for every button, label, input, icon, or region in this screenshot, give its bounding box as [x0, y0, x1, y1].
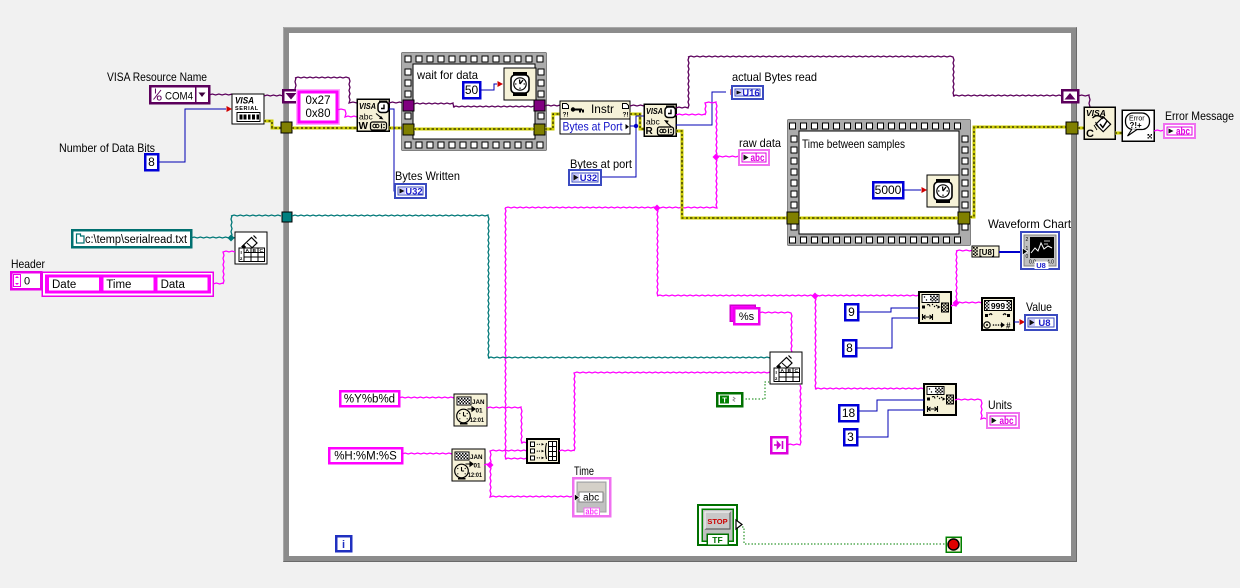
error wire VISA serial to loop tunnel	[264, 121, 281, 128]
VISA resource name constant COM4	[150, 86, 209, 103]
error tunnel on loop right border	[1066, 122, 1078, 134]
Format Date/Time String node 1	[454, 394, 487, 426]
indicator Bytes Written U32	[395, 184, 426, 198]
wire to time format node	[402, 453, 452, 454]
svg-text:VISA: VISA	[646, 106, 663, 116]
label Waveform Chart	[988, 217, 1072, 231]
Write To Spreadsheet File node (data)	[770, 352, 802, 384]
svg-text:?!: ?!	[623, 112, 629, 119]
numeric constant 50	[463, 82, 480, 98]
svg-text:Units: Units	[988, 398, 1012, 412]
numeric constant 18	[839, 405, 858, 421]
string wire read buffer	[505, 102, 739, 459]
indicator raw data	[739, 150, 769, 165]
format string constant %s	[730, 305, 759, 324]
wire 18 to subset 2	[858, 400, 924, 411]
svg-text:A: A	[246, 248, 250, 254]
svg-text:0x80: 0x80	[306, 108, 331, 120]
string wire header array to write node	[213, 251, 235, 284]
error wire through sequence 2	[799, 217, 958, 220]
property node Instr / Bytes at Port	[560, 101, 630, 134]
wire date string to build array	[487, 407, 527, 443]
svg-text:Bytes Written: Bytes Written	[395, 169, 460, 183]
string constant %H:%M:%S	[329, 448, 402, 463]
wire VISA resource shift register over to VISA Write	[295, 77, 357, 103]
wire write node to set position icon	[787, 385, 801, 445]
label Bytes Written	[395, 169, 460, 183]
svg-text:U16: U16	[742, 88, 759, 99]
label actual Bytes read	[732, 70, 817, 84]
svg-text:8: 8	[148, 155, 155, 169]
label Header	[11, 257, 45, 271]
while loop structure	[283, 27, 1077, 562]
sequence 1 error tunnels	[403, 124, 545, 135]
svg-text:Time: Time	[574, 464, 594, 478]
svg-text:A: A	[781, 368, 785, 374]
svg-text:8: 8	[846, 341, 853, 355]
svg-text:wait for data: wait for data	[416, 68, 478, 82]
wire to date format node	[399, 397, 454, 398]
svg-text:Error Message: Error Message	[1165, 109, 1234, 123]
svg-text:U32: U32	[580, 173, 597, 184]
svg-text:abc: abc	[646, 117, 660, 127]
wire 8 to subset length	[856, 318, 919, 348]
svg-text:T: T	[722, 396, 727, 405]
indicator Units	[987, 413, 1019, 428]
svg-text:STOP: STOP	[707, 517, 727, 526]
boolean constant T	[717, 393, 742, 406]
numeric constant 8 (data bits)	[145, 154, 158, 170]
Wait (ms) node in sequence 1	[504, 68, 536, 100]
svg-text:[U8]: [U8]	[979, 248, 995, 257]
flat sequence frame - wait for data	[402, 53, 546, 150]
wire VISA Write to sequence tunnel (VISA)	[389, 102, 403, 103]
svg-text:?!: ?!	[563, 112, 569, 119]
svg-text:O: O	[157, 96, 163, 103]
string wire to string subset nodes	[657, 293, 924, 390]
Waveform Chart terminal	[1021, 232, 1059, 270]
svg-text:01: 01	[476, 408, 484, 415]
svg-text:3: 3	[847, 430, 854, 444]
VISA wire to VISA Close	[1078, 95, 1090, 107]
error wire sequence 1 to property node	[545, 114, 560, 129]
svg-text:B: B	[788, 368, 792, 374]
flat sequence frame - Time between samples	[788, 120, 970, 245]
svg-text:COM4: COM4	[165, 91, 193, 103]
error wire loop to VISA Close	[1078, 127, 1084, 130]
svg-text:Data: Data	[161, 279, 186, 291]
file path constant c:\temp\serialread.txt	[72, 230, 191, 247]
Time string indicator	[573, 478, 610, 517]
VISA Write node	[357, 99, 389, 132]
wire 3 to subset 2	[857, 410, 924, 437]
numeric constant 8	[843, 340, 856, 356]
wire time string to build array and Time indicator	[484, 450, 573, 497]
VISA wire read to right shift register	[676, 56, 1062, 108]
string constant 0x27 0x80	[297, 90, 340, 125]
wire 5000 to wait ms 2	[903, 187, 927, 193]
label Value	[1026, 300, 1052, 314]
svg-text:abc: abc	[1176, 127, 1190, 138]
Wait (ms) node in sequence 2	[927, 175, 959, 207]
wire data bits 8 to VISA serial	[158, 106, 232, 162]
indicator Bytes at port U32	[569, 170, 601, 185]
svg-text:B: B	[253, 248, 257, 254]
VISA wire through sequence 1	[414, 103, 534, 107]
svg-text:c:\temp\serialread.txt: c:\temp\serialread.txt	[85, 234, 188, 246]
svg-text:Instr: Instr	[591, 102, 614, 116]
svg-text:C: C	[260, 248, 264, 254]
svg-text:0: 0	[24, 276, 30, 288]
svg-text:Waveform Chart: Waveform Chart	[988, 217, 1072, 231]
svg-text:VISA: VISA	[359, 101, 376, 111]
label Time between samples	[802, 137, 905, 151]
svg-text:%Y%b%d: %Y%b%d	[344, 394, 395, 406]
svg-text:SERIAL: SERIAL	[235, 106, 259, 112]
svg-text:Number of Data Bits: Number of Data Bits	[59, 141, 155, 155]
svg-text:%s: %s	[739, 311, 755, 323]
svg-text:U8: U8	[1038, 318, 1050, 329]
path wire inside loop	[292, 215, 770, 358]
String To Byte Array node	[972, 246, 999, 257]
String Subset node 2	[924, 384, 956, 415]
sequence 1 VISA tunnels	[403, 100, 545, 111]
loop iteration terminal i	[336, 536, 351, 551]
wire 9 to subset offset	[858, 308, 919, 312]
svg-text:Header: Header	[11, 257, 45, 271]
svg-text:JAN: JAN	[470, 454, 483, 461]
svg-text:actual Bytes read: actual Bytes read	[732, 70, 817, 84]
svg-text:12:01: 12:01	[468, 472, 482, 479]
svg-text:0x27: 0x27	[306, 95, 331, 107]
label Error Message	[1165, 109, 1234, 123]
VISA wire sequence 1 to property node	[545, 105, 560, 106]
VISA wire property node to VISA Read	[630, 105, 644, 106]
error wire VISA Write to sequence tunnel	[389, 127, 403, 130]
numeric constant 9	[845, 304, 858, 320]
svg-text:Time between samples: Time between samples	[802, 137, 905, 151]
svg-text:999: 999	[991, 301, 1005, 311]
path wire file constant to write header node and loop	[191, 215, 281, 242]
error wire close to error handler	[1115, 132, 1122, 135]
string wire to Error Message	[1154, 130, 1164, 131]
label VISA Resource Name	[107, 70, 207, 84]
error wire VISA Read to sequence 2	[676, 131, 787, 218]
label wait for data	[416, 68, 478, 82]
svg-text:raw data: raw data	[739, 136, 781, 150]
svg-text:U32: U32	[405, 187, 422, 198]
boolean wire T to write node	[742, 382, 769, 399]
svg-text:TF: TF	[712, 535, 722, 545]
numeric constant 5000	[873, 182, 903, 198]
string constant %Y%b%d	[340, 391, 399, 406]
svg-text:U8: U8	[1036, 261, 1046, 270]
numeric constant 3	[844, 429, 857, 445]
loop condition terminal	[946, 537, 961, 552]
indicator actual Bytes read U16	[732, 86, 763, 99]
svg-text:%H:%M:%S: %H:%M:%S	[334, 451, 397, 463]
label Bytes at port	[570, 157, 633, 171]
svg-text:Date: Date	[52, 279, 76, 291]
svg-text:Time: Time	[106, 279, 131, 291]
svg-text:VISA: VISA	[235, 96, 254, 106]
label Time	[574, 464, 594, 478]
VISA Close node	[1084, 107, 1115, 140]
sequence 2 error tunnels	[787, 212, 970, 224]
svg-text:abc: abc	[1000, 416, 1014, 427]
label Units	[988, 398, 1012, 412]
wire bytes written from VISA Write	[389, 109, 396, 191]
Format Date/Time String node 2	[452, 449, 485, 481]
left shift register	[283, 90, 299, 102]
svg-text:R: R	[646, 126, 654, 137]
wire %s to write node	[759, 312, 792, 352]
svg-text:5000: 5000	[875, 183, 902, 197]
wire string 0x27 to VISA Write	[337, 109, 357, 117]
indicator Error Message	[1164, 124, 1195, 138]
error wire sequence 2 to loop tunnel	[970, 127, 1066, 217]
svg-text:W: W	[359, 121, 369, 132]
Header array index box	[11, 272, 41, 289]
boolean wire stop to loop condition	[742, 527, 946, 544]
svg-text:Bytes at Port: Bytes at Port	[563, 120, 624, 134]
wire VISA resource COM4 to VISA Configure Serial Port	[209, 94, 232, 95]
wire subset 2 to Units	[955, 399, 987, 419]
svg-text:Bytes at port: Bytes at port	[570, 157, 633, 171]
VISA Read node	[644, 104, 676, 137]
Simple Error Handler node	[1122, 110, 1154, 141]
wire array to write node	[559, 372, 770, 451]
svg-text:#: #	[1006, 322, 1011, 331]
wire VISA resource serial to left shift register	[264, 95, 283, 96]
svg-text:01: 01	[474, 463, 482, 470]
svg-text:C: C	[1086, 128, 1094, 140]
String Subset node 1	[919, 292, 951, 323]
Build Array node	[527, 439, 559, 463]
wire 50 to wait ms	[480, 81, 503, 90]
svg-text:i: i	[342, 539, 345, 551]
wire byte array to waveform chart	[999, 251, 1021, 253]
svg-text:?!+: ?!+	[1130, 121, 1143, 130]
right shift register	[1062, 90, 1078, 102]
svg-text:12:01: 12:01	[470, 417, 484, 424]
svg-text:2: 2	[1026, 237, 1029, 243]
error wire through sequence 1	[414, 128, 534, 131]
wire to Value indicator	[1014, 319, 1025, 325]
svg-text:9: 9	[848, 305, 855, 319]
wire subset 1 output	[951, 250, 982, 307]
wire return count to U16	[676, 89, 736, 125]
path tunnel on loop left border	[282, 212, 292, 222]
VISA Configure Serial Port node	[232, 94, 264, 124]
indicator Value U8	[1025, 315, 1057, 330]
wire Bytes at Port output	[601, 116, 644, 177]
svg-text:abc: abc	[751, 153, 765, 164]
label Number of Data Bits	[59, 141, 155, 155]
Write To Spreadsheet File node (header)	[235, 232, 267, 264]
error wire property node to VISA Read	[630, 114, 644, 129]
svg-text:abc: abc	[359, 112, 373, 122]
svg-text:C: C	[795, 368, 799, 374]
stop button terminal	[698, 505, 742, 545]
svg-text:JAN: JAN	[472, 399, 485, 406]
label raw data	[739, 136, 781, 150]
error tunnel on loop left border	[281, 122, 292, 133]
svg-text:Value: Value	[1026, 300, 1052, 314]
error wire tunnel to VISA Write	[292, 127, 357, 130]
svg-text:I: I	[155, 89, 157, 96]
svg-text:50: 50	[465, 83, 479, 97]
set file position icon	[771, 437, 787, 453]
svg-text:VISA Resource Name: VISA Resource Name	[107, 70, 207, 84]
Header array of strings Date Time Data	[42, 272, 213, 296]
svg-text:18: 18	[842, 406, 856, 420]
Decimal String To Number node	[982, 298, 1014, 331]
svg-text:abc: abc	[586, 507, 599, 517]
svg-text:abc: abc	[583, 493, 599, 504]
